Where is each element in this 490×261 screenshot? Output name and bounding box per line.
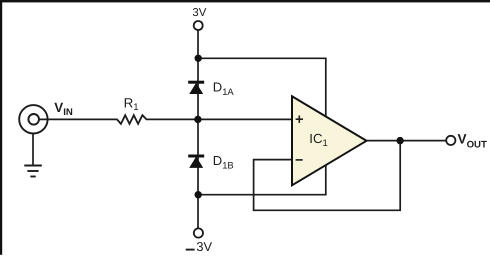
wire: resistor R1 to op-amp + input (through node A) xyxy=(146,118,292,120)
wire: feedback loop from output junction to - input xyxy=(254,141,401,211)
op-amp + input symbol xyxy=(296,116,303,123)
resistor R1 xyxy=(117,115,147,124)
junction: -3V rail to V- wire xyxy=(195,191,202,198)
wire: VIN connector ground stem xyxy=(32,133,34,166)
terminal: VOUT xyxy=(446,136,455,145)
terminal: 3V xyxy=(194,21,203,30)
wire: V+ supply from 3V junction to op-amp top edge xyxy=(198,58,326,120)
wire: op-amp output to VOUT terminal xyxy=(367,140,447,142)
wire: V- supply from -3V junction to op-amp bottom edge xyxy=(198,163,326,195)
terminal: -3V xyxy=(194,228,203,237)
diode D1B (cathode bar) xyxy=(188,155,204,158)
ground symbol xyxy=(24,166,42,177)
diode D1B (anode triangle) xyxy=(190,157,202,167)
connector VIN (inner circle) xyxy=(28,114,39,125)
diode D1A (cathode bar) xyxy=(188,81,204,84)
top frame border xyxy=(0,0,490,2)
diode D1A (anode triangle) xyxy=(190,84,202,94)
junction: 3V rail to V+ wire xyxy=(195,55,202,62)
svg-text:3V: 3V xyxy=(192,7,206,19)
op-amp - input symbol xyxy=(296,159,303,161)
junction: output to feedback xyxy=(396,137,403,144)
label -3V xyxy=(186,239,213,254)
connector VIN (outer circle) xyxy=(19,105,47,133)
wire: VIN to resistor R1 xyxy=(39,118,118,120)
svg-text:3V: 3V xyxy=(196,239,212,254)
left frame border xyxy=(0,0,2,255)
junction: node A (R1 / diodes / + input) xyxy=(194,116,201,123)
op-amp IC1 (triangle body) xyxy=(292,96,367,185)
wire: 3V rail vertical (3V terminal to -3V terminal through diodes) xyxy=(197,30,199,229)
